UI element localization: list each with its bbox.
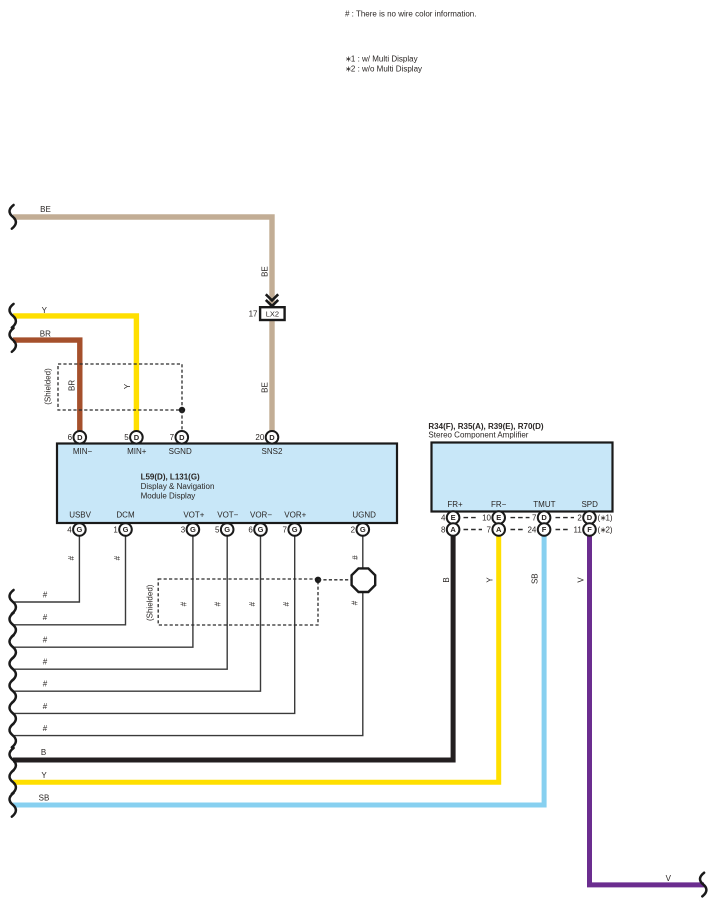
svg-text:Y: Y — [123, 383, 132, 389]
svg-text:8: 8 — [441, 525, 446, 534]
break symbol Y wire left — [10, 304, 16, 328]
svg-text:2: 2 — [577, 514, 582, 523]
connector LX2 — [249, 307, 285, 320]
svg-text:F: F — [587, 525, 592, 534]
svg-text:G: G — [190, 525, 196, 534]
svg-text:3: 3 — [181, 525, 186, 534]
svg-text:7: 7 — [170, 433, 175, 442]
svg-text:SPD: SPD — [581, 500, 598, 509]
svg-text:BR: BR — [40, 330, 51, 339]
svg-text:4: 4 — [67, 525, 72, 534]
svg-text:D: D — [77, 433, 83, 442]
svg-text:G: G — [224, 525, 230, 534]
wire UGND to off-page — [13, 530, 363, 736]
break symbol SB wire left — [10, 793, 16, 817]
svg-text:G: G — [258, 525, 264, 534]
break symbol DCM wire left — [10, 613, 16, 637]
svg-text:MIN+: MIN+ — [127, 447, 147, 456]
svg-text:#: # — [282, 601, 291, 606]
svg-text:(∗1): (∗1) — [598, 514, 613, 523]
svg-text:A: A — [496, 525, 502, 534]
shield box lower (dashed) — [158, 579, 318, 625]
svg-text:11: 11 — [573, 525, 582, 534]
svg-text:UGND: UGND — [352, 511, 376, 520]
svg-text:BE: BE — [260, 382, 269, 393]
break symbol Y wire left — [10, 770, 16, 794]
svg-text:F: F — [542, 525, 547, 534]
amp pin row 1 dashed links — [464, 517, 575, 519]
svg-text:E: E — [496, 513, 501, 522]
svg-text:5: 5 — [215, 525, 220, 534]
wire Y (yellow) FR- to off-page — [13, 530, 499, 782]
pin 2 D SPD row1 — [577, 511, 595, 524]
svg-text:6: 6 — [248, 525, 253, 534]
svg-text:TMUT: TMUT — [533, 500, 555, 509]
pin 2 G UGND — [351, 523, 369, 536]
svg-text:D: D — [587, 513, 593, 522]
svg-text:#: # — [43, 613, 48, 622]
pin 7 D SGND — [170, 431, 188, 444]
break symbol VOR+ wire left — [10, 701, 16, 725]
svg-text:20: 20 — [255, 433, 264, 442]
svg-text:VOR−: VOR− — [250, 511, 272, 520]
break symbol VOT- wire left — [10, 657, 16, 681]
svg-text:MIN−: MIN− — [73, 447, 93, 456]
svg-text:BE: BE — [260, 266, 269, 277]
wire Y (yellow) from off-page to MIN+ pin 5 — [13, 316, 136, 437]
pin 4 E FR+ row1 — [441, 511, 459, 524]
svg-text:(∗2): (∗2) — [598, 525, 613, 534]
svg-text:Stereo Component Amplifier: Stereo Component Amplifier — [428, 431, 528, 440]
pin 10 E FR- row1 — [482, 511, 505, 524]
connector pass-through chevrons above LX2 — [266, 294, 278, 306]
svg-text:BE: BE — [40, 205, 51, 214]
svg-text:1: 1 — [113, 525, 118, 534]
svg-text:#: # — [43, 636, 48, 645]
svg-text:6: 6 — [68, 433, 73, 442]
wire DCM to off-page — [13, 530, 126, 625]
svg-text:B: B — [442, 577, 451, 582]
break symbol UGND wire left — [10, 724, 16, 748]
break symbol VOR- wire left — [10, 679, 16, 703]
svg-text:4: 4 — [441, 514, 446, 523]
svg-text:5: 5 — [124, 433, 129, 442]
svg-text:#: # — [214, 601, 223, 606]
svg-text:# : There is no wire color inf: # : There is no wire color information. — [345, 9, 476, 18]
svg-text:FR−: FR− — [491, 500, 507, 509]
svg-text:7: 7 — [487, 525, 492, 534]
svg-text:V: V — [577, 577, 586, 583]
pin 7 G VOR+ — [283, 523, 301, 536]
svg-text:∗1 : w/ Multi Display: ∗1 : w/ Multi Display — [345, 55, 418, 64]
break symbol USBV wire left — [10, 590, 16, 614]
wire VOR+ to off-page — [13, 530, 295, 714]
wire USBV to off-page — [13, 530, 79, 603]
pin 20 D SNS2 — [255, 431, 278, 444]
wire VOT+ to off-page — [13, 530, 193, 648]
pin 8 A FR+ row2 — [441, 523, 459, 536]
svg-text:D: D — [541, 513, 547, 522]
svg-text:7: 7 — [532, 514, 537, 523]
svg-text:R34(F), R35(A), R39(E), R70(D): R34(F), R35(A), R39(E), R70(D) — [428, 422, 543, 431]
break symbol BE wire left — [10, 205, 16, 229]
pin 7 D TMUT row1 — [532, 511, 550, 524]
svg-text:#: # — [351, 600, 360, 605]
svg-text:D: D — [269, 433, 275, 442]
wire B (black) FR+ to off-page — [13, 530, 453, 760]
svg-text:10: 10 — [482, 514, 491, 523]
svg-text:VOT+: VOT+ — [183, 511, 204, 520]
svg-text:G: G — [123, 525, 129, 534]
svg-text:Y: Y — [486, 577, 495, 583]
svg-text:#: # — [67, 555, 76, 560]
svg-text:Display & Navigation: Display & Navigation — [141, 482, 215, 491]
svg-text:A: A — [450, 525, 456, 534]
svg-text:DCM: DCM — [116, 511, 135, 520]
pin 1 G DCM — [113, 523, 131, 536]
svg-text:∗2 : w/o Multi Display: ∗2 : w/o Multi Display — [345, 65, 422, 74]
pin 5 G VOT- — [215, 523, 233, 536]
shield drain junction dot upper — [179, 407, 185, 413]
svg-text:D: D — [179, 433, 185, 442]
svg-text:FR+: FR+ — [447, 500, 463, 509]
svg-text:LX2: LX2 — [266, 309, 279, 318]
svg-text:V: V — [666, 874, 672, 883]
wire BE (beige) from off-page to SNS2 pin 20 — [13, 217, 272, 437]
pin 6 D MIN- — [68, 431, 86, 444]
svg-text:#: # — [179, 601, 188, 606]
break symbol VOT+ wire left — [10, 635, 16, 659]
svg-text:USBV: USBV — [69, 511, 91, 520]
svg-text:SB: SB — [531, 573, 540, 584]
wire VOR- to off-page — [13, 530, 261, 692]
svg-text:Module Display: Module Display — [141, 491, 196, 500]
svg-text:E: E — [451, 513, 456, 522]
svg-text:SB: SB — [39, 794, 50, 803]
break symbol BR wire left — [10, 328, 16, 352]
svg-text:G: G — [76, 525, 82, 534]
pin 4 G USBV — [67, 523, 85, 536]
wire VOT- to off-page — [13, 530, 227, 670]
wire SB (sky blue) TMUT to off-page — [13, 530, 544, 805]
svg-text:#: # — [43, 590, 48, 599]
pin 5 D MIN+ — [124, 431, 142, 444]
svg-text:#: # — [43, 724, 48, 733]
svg-text:#: # — [43, 680, 48, 689]
wire BR (brown) from off-page to MIN- pin 6 — [13, 340, 80, 437]
svg-text:#: # — [43, 658, 48, 667]
break symbol V wire right — [700, 873, 706, 897]
svg-text:SNS2: SNS2 — [262, 447, 283, 456]
svg-text:#: # — [248, 601, 257, 606]
svg-text:SGND: SGND — [169, 447, 192, 456]
svg-text:G: G — [360, 525, 366, 534]
component box L59/L131 Display & Navigation Module Display — [57, 444, 397, 524]
svg-text:17: 17 — [249, 309, 258, 318]
svg-text:(Shielded): (Shielded) — [146, 584, 155, 621]
svg-text:#: # — [43, 702, 48, 711]
component box R34/R35/R39/R70 Stereo Component Amplifier — [432, 443, 613, 512]
pin 24 F TMUT row2 — [527, 523, 550, 536]
break symbol B wire left — [10, 748, 16, 772]
shield drain junction dot lower — [315, 577, 321, 583]
svg-text:#: # — [113, 555, 122, 560]
svg-text:Y: Y — [41, 771, 47, 780]
svg-text:24: 24 — [527, 525, 536, 534]
pin 7 A FR- row2 — [487, 523, 505, 536]
svg-text:(Shielded): (Shielded) — [44, 368, 53, 405]
svg-text:2: 2 — [351, 525, 356, 534]
shield box upper (dashed) — [58, 364, 182, 410]
wire V (violet) SPD to off-page right — [590, 530, 705, 885]
svg-text:VOT−: VOT− — [217, 511, 238, 520]
pin 3 G VOT+ — [181, 523, 199, 536]
svg-text:L59(D), L131(G): L59(D), L131(G) — [141, 473, 200, 482]
svg-text:B: B — [41, 748, 46, 757]
svg-text:#: # — [351, 555, 360, 560]
svg-text:BR: BR — [67, 380, 76, 391]
svg-text:7: 7 — [283, 525, 288, 534]
shield drain dashed wire to SGND — [181, 410, 183, 431]
svg-text:D: D — [134, 433, 140, 442]
svg-text:G: G — [292, 525, 298, 534]
svg-text:VOR+: VOR+ — [284, 511, 306, 520]
pin 6 G VOR- — [248, 523, 266, 536]
shield drain dashed wire to octagon — [318, 579, 351, 581]
pin 11 F SPD row2 — [573, 523, 595, 536]
amp pin row 2 dashed links — [464, 529, 571, 531]
svg-text:Y: Y — [42, 306, 48, 315]
shield ring octagon on UGND wire — [352, 568, 376, 592]
